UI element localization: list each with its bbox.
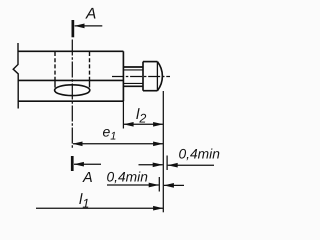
extension line head end (main vertical) — [162, 91, 164, 212]
lower 0,4min arrowhead pointing left — [164, 183, 174, 188]
section A top arrow tail — [75, 25, 103, 27]
lower 0,4min right arrow line — [164, 184, 184, 186]
screw head round cap arc — [157, 62, 162, 91]
horizontal centerline — [112, 76, 170, 78]
screw head tangent line — [156, 62, 158, 91]
screw thread top line — [124, 69, 143, 71]
section A bottom arrowhead — [74, 162, 84, 167]
screw shaft top edge — [124, 66, 143, 68]
upper 0,4min left arrow line — [139, 164, 163, 166]
screw shaft bottom edge — [124, 85, 143, 87]
dimension line e1 — [73, 143, 163, 145]
l2 left arrowhead — [123, 122, 133, 127]
svg-text:l2: l2 — [136, 106, 146, 126]
lower 0,4min arrowhead pointing right at tick — [149, 183, 159, 188]
e1 right arrowhead — [153, 141, 163, 146]
svg-text:0,4min: 0,4min — [179, 147, 221, 162]
tick lower 0,4min — [158, 177, 160, 192]
svg-text:0,4min: 0,4min — [107, 170, 149, 185]
body bottom edge — [18, 100, 123, 102]
screw head top edge — [143, 61, 157, 63]
section A top bar — [72, 20, 75, 37]
svg-text:A: A — [82, 170, 93, 186]
vertical centerline — [71, 40, 73, 149]
upper 0,4min right leader line — [168, 164, 214, 166]
screw head bottom edge — [143, 90, 157, 92]
l1 right arrowhead — [153, 206, 163, 211]
body top edge — [18, 50, 123, 52]
body inner line — [18, 79, 123, 81]
lower 0,4min shelf line — [107, 184, 159, 186]
upper 0,4min right arrowhead pointing left — [168, 163, 178, 168]
dimension line l1 — [36, 207, 163, 209]
hole ellipse — [55, 85, 90, 96]
hidden hole left edge — [54, 52, 56, 80]
section A bottom arrow tail — [74, 163, 101, 165]
screw head left face — [142, 62, 144, 91]
svg-text:e1: e1 — [103, 124, 117, 143]
body left break line — [13, 43, 18, 109]
section A bottom bar — [71, 156, 74, 171]
e1 left arrowhead — [72, 141, 82, 146]
section A top arrowhead — [74, 24, 84, 29]
body right edge — [122, 51, 124, 101]
extension line body right edge down — [122, 101, 124, 128]
tick upper 0,4min — [166, 156, 168, 171]
hidden hole right edge — [89, 52, 91, 80]
upper 0,4min left arrowhead pointing right — [153, 162, 163, 167]
l2 right arrowhead — [153, 122, 163, 127]
screw thread bottom line — [124, 82, 143, 84]
hole visible left edge — [54, 80, 56, 87]
hole visible right edge — [89, 80, 91, 87]
svg-text:l1: l1 — [79, 191, 89, 211]
svg-text:A: A — [85, 5, 96, 22]
dimension line l2 — [124, 123, 163, 125]
